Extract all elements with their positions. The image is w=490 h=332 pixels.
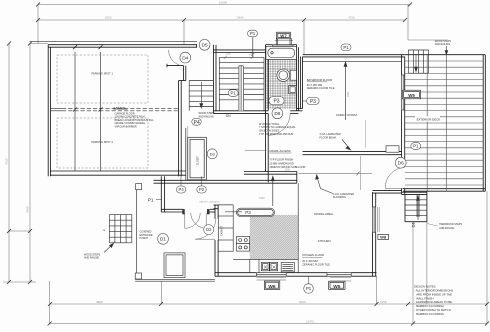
svg-text:TYP FLOOR FINISH: TYP FLOOR FINISH (269, 158, 293, 162)
svg-text:7 STEPS TO LANDING EQUAL: 7 STEPS TO LANDING EQUAL (259, 125, 296, 129)
svg-text:20 MM HARDWOOD: 20 MM HARDWOOD (269, 161, 293, 165)
svg-text:P1: P1 (148, 198, 154, 203)
svg-text:P4: P4 (179, 187, 185, 192)
svg-text:FAMILY ROOM: FAMILY ROOM (336, 113, 357, 117)
svg-text:1100: 1100 (226, 53, 232, 56)
svg-text:W6: W6 (268, 284, 276, 290)
svg-text:TYP 190 RISE AND 250 RUN: TYP 190 RISE AND 250 RUN (259, 132, 293, 136)
svg-text:P3: P3 (310, 99, 316, 105)
svg-text:FLOOR BEAM: FLOOR BEAM (320, 137, 336, 140)
svg-text:4880: 4880 (96, 300, 103, 304)
svg-text:PORCH: PORCH (140, 237, 149, 240)
svg-text:P3: P3 (273, 99, 279, 105)
svg-text:CERAMIC FLOOR TILE: CERAMIC FLOOR TILE (307, 86, 335, 90)
svg-text:D1: D1 (160, 237, 166, 243)
svg-text:6000: 6000 (299, 300, 306, 304)
svg-text:KITCHEN: KITCHEN (318, 239, 331, 243)
svg-text:KITCHEN FLOOR: KITCHEN FLOOR (302, 253, 324, 257)
svg-text:W8: W8 (380, 235, 387, 240)
svg-text:P3: P3 (245, 210, 251, 215)
svg-text:1055: 1055 (380, 300, 387, 304)
svg-text:FLOORING: FLOORING (333, 196, 346, 199)
svg-text:CERAMIC FLOOR TILE: CERAMIC FLOOR TILE (302, 262, 330, 266)
svg-text:D6: D6 (274, 111, 280, 117)
svg-text:HARDWOOD STEPS: HARDWOOD STEPS (439, 223, 462, 226)
svg-text:PARKING SPOT 2: PARKING SPOT 2 (92, 140, 114, 144)
svg-text:6000: 6000 (105, 16, 112, 20)
svg-text:4730: 4730 (348, 16, 355, 20)
svg-text:6400: 6400 (26, 206, 30, 213)
svg-text:CRAWL ACCESS: CRAWL ACCESS (269, 149, 290, 153)
svg-text:2R: 2R (103, 230, 106, 232)
svg-text:P1: P1 (250, 31, 256, 36)
svg-text:CABINET: CABINET (220, 225, 223, 236)
svg-text:AND RAILING: AND RAILING (199, 115, 214, 118)
svg-text:VAPOUR BARRIER: VAPOUR BARRIER (115, 126, 137, 129)
svg-text:P2: P2 (199, 187, 205, 192)
svg-text:ON BOTH SIDES: ON BOTH SIDES (259, 129, 280, 133)
svg-text:10000: 10000 (219, 1, 227, 5)
svg-text:BAMBOO FLOORING: BAMBOO FLOORING (416, 312, 444, 316)
svg-text:2440: 2440 (259, 197, 265, 200)
svg-text:GARAGE:: GARAGE: (113, 106, 126, 110)
svg-text:AND RAILING: AND RAILING (435, 43, 450, 46)
svg-text:AND RAILING: AND RAILING (439, 227, 454, 230)
svg-text:DN: DN (226, 114, 231, 118)
svg-text:BATHROOM FLOOR: BATHROOM FLOOR (307, 78, 332, 82)
svg-text:P1: P1 (413, 144, 419, 149)
svg-text:W WOOD TOTAL: W WOOD TOTAL (259, 122, 280, 126)
svg-text:2400: 2400 (347, 91, 350, 97)
svg-text:AND RAILING: AND RAILING (84, 257, 99, 260)
svg-text:W5: W5 (333, 284, 341, 290)
svg-text:D6: D6 (398, 161, 404, 167)
svg-text:PARKING SPOT 1: PARKING SPOT 1 (92, 72, 114, 76)
svg-text:W7: W7 (280, 33, 287, 38)
svg-text:D2: D2 (206, 227, 212, 232)
svg-text:D4: D4 (182, 55, 188, 61)
svg-text:P1: P1 (231, 91, 237, 96)
svg-text:11470: 11470 (306, 319, 314, 323)
svg-text:D5: D5 (202, 43, 208, 49)
svg-text:2440: 2440 (237, 16, 244, 20)
svg-text:CLOSET: CLOSET (197, 155, 199, 165)
svg-text:20 X 400 MM: 20 X 400 MM (302, 259, 317, 263)
svg-text:D3: D3 (210, 151, 216, 156)
svg-text:P1: P1 (343, 45, 349, 50)
svg-text:7010: 7010 (5, 158, 9, 165)
svg-text:P1: P1 (306, 286, 312, 291)
svg-text:50 X 450 MM: 50 X 450 MM (307, 83, 322, 87)
svg-text:W9: W9 (408, 93, 415, 98)
svg-text:EXTERIOR DECK: EXTERIOR DECK (417, 118, 441, 122)
svg-text:PANTRY CABINETS: PANTRY CABINETS (199, 200, 220, 203)
svg-text:DINING AREA: DINING AREA (314, 212, 333, 216)
svg-text:1350: 1350 (249, 53, 255, 56)
svg-text:P4: P4 (194, 120, 200, 126)
svg-text:DN: DN (411, 221, 416, 227)
svg-text:16MM PLYWOOD SUBFLOOR: 16MM PLYWOOD SUBFLOOR (269, 165, 305, 169)
